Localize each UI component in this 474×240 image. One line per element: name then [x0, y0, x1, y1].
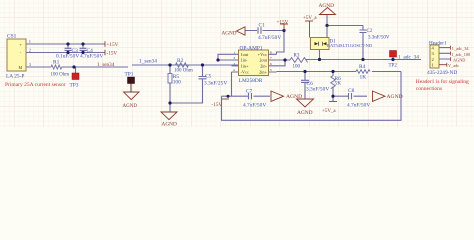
svg-text:R3: R3	[294, 54, 300, 59]
svg-text:R4: R4	[359, 64, 366, 70]
svg-text:1_adc_34: 1_adc_34	[452, 46, 470, 51]
svg-text:AGND: AGND	[286, 94, 302, 100]
svg-text:+15V: +15V	[277, 20, 289, 26]
svg-text:4.7nF/50V: 4.7nF/50V	[347, 103, 370, 109]
svg-text:V_adc: V_adc	[448, 63, 459, 68]
svg-text:OP-AMP1: OP-AMP1	[240, 45, 263, 51]
svg-text:3: 3	[234, 62, 236, 66]
svg-text:+15V: +15V	[107, 42, 119, 48]
svg-text:AGND: AGND	[453, 57, 465, 62]
svg-text:3.3nF/50V: 3.3nF/50V	[306, 87, 329, 93]
svg-text:C1: C1	[259, 23, 266, 29]
svg-text:5: 5	[270, 68, 272, 72]
svg-text:100: 100	[173, 80, 181, 86]
svg-text:4: 4	[233, 68, 235, 72]
svg-text:TP3: TP3	[70, 83, 79, 89]
svg-text:3.3nF/50V: 3.3nF/50V	[368, 35, 390, 40]
svg-text:2in-: 2in-	[260, 63, 267, 68]
svg-text:4.7nF/50V: 4.7nF/50V	[258, 35, 281, 41]
svg-text:LM258DR: LM258DR	[239, 78, 263, 84]
svg-text:1_sen34: 1_sen34	[139, 59, 157, 65]
svg-text:2: 2	[29, 49, 31, 53]
svg-text:C7: C7	[246, 89, 253, 95]
svg-text:100 Ohm: 100 Ohm	[50, 72, 69, 77]
svg-text:1out: 1out	[241, 52, 249, 57]
svg-text:4.7uF/50V: 4.7uF/50V	[243, 103, 266, 109]
svg-text:TP2: TP2	[389, 64, 398, 69]
svg-text:R1: R1	[53, 59, 60, 65]
svg-text:435-2249-ND: 435-2249-ND	[427, 70, 457, 76]
svg-text:AGND: AGND	[297, 110, 313, 116]
svg-text:AGND: AGND	[222, 30, 237, 36]
svg-text:2: 2	[234, 56, 236, 60]
svg-text:1: 1	[29, 40, 31, 44]
svg-text:5K: 5K	[335, 81, 342, 87]
svg-text:1_adc_100: 1_adc_100	[451, 52, 470, 57]
svg-text:-Vcc: -Vcc	[241, 70, 249, 75]
svg-text:1in+: 1in+	[241, 63, 249, 68]
svg-text:Header1 is for signaling: Header1 is for signaling	[416, 78, 469, 85]
svg-text:connections: connections	[416, 86, 442, 92]
svg-text:100 Ohm: 100 Ohm	[174, 69, 193, 74]
svg-text:+5V_a: +5V_a	[322, 109, 336, 114]
svg-text:C8: C8	[348, 88, 355, 94]
svg-text:Primary 25A current sensor: Primary 25A current sensor	[5, 82, 66, 88]
svg-text:-15V: -15V	[212, 102, 223, 108]
svg-text:AGND: AGND	[387, 94, 403, 100]
svg-text:1_sen34: 1_sen34	[97, 62, 115, 68]
svg-text:1K: 1K	[360, 75, 367, 81]
svg-text:3.3nF/25V: 3.3nF/25V	[204, 80, 227, 86]
svg-text:Header1: Header1	[429, 41, 447, 47]
svg-text:+Vcc: +Vcc	[258, 52, 267, 57]
svg-text:1in-: 1in-	[241, 58, 248, 63]
svg-text:R2: R2	[177, 58, 184, 64]
svg-text:AGND: AGND	[319, 3, 335, 9]
svg-text:3: 3	[29, 63, 31, 67]
svg-text:C5: C5	[205, 74, 212, 80]
svg-text:-15V: -15V	[107, 51, 118, 57]
svg-text:8: 8	[270, 51, 272, 55]
svg-text:7: 7	[270, 56, 272, 60]
svg-text:AGND: AGND	[123, 104, 138, 109]
svg-text:2out: 2out	[259, 58, 267, 63]
svg-text:1: 1	[234, 51, 236, 55]
svg-text:CS1: CS1	[7, 34, 17, 40]
svg-text:+5V_a: +5V_a	[303, 16, 317, 21]
svg-text:BAT54SLT1GOSCT-ND: BAT54SLT1GOSCT-ND	[327, 43, 373, 48]
svg-text:100: 100	[293, 65, 301, 70]
svg-text:LA 25-P: LA 25-P	[6, 74, 24, 80]
svg-text:6: 6	[270, 62, 272, 66]
svg-text:AGND: AGND	[162, 122, 177, 128]
svg-text:1_adc_34: 1_adc_34	[398, 54, 419, 60]
svg-text:M: M	[19, 65, 23, 70]
svg-text:0.1uF/50V: 0.1uF/50V	[56, 53, 79, 59]
svg-text:C2: C2	[367, 29, 373, 34]
svg-text:TP1: TP1	[125, 72, 134, 78]
svg-text:4.7uF/50V: 4.7uF/50V	[80, 53, 103, 59]
svg-text:2in+: 2in+	[259, 70, 267, 75]
